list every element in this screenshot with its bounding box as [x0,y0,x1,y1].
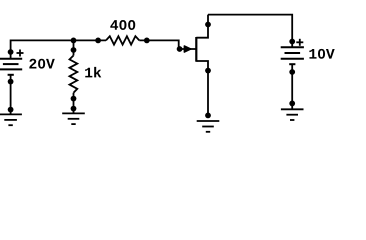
transistor Q1 source lead [196,61,208,116]
battery V1 bottom terminal dot [8,79,14,85]
ground below resistor R1 [62,112,85,114]
resistor R2 right terminal dot [144,38,150,44]
ground below battery V2 [281,108,304,110]
battery V2 plus sign [296,41,303,43]
transistor Q1 drain dot [205,22,211,28]
resistor R1 value label 1k [85,67,101,78]
transistor Q1 drain lead [196,15,208,38]
battery V1 top terminal dot [8,49,14,55]
wire node A to resistor R2 left terminal [74,39,107,41]
wire resistor R2 to transistor Q1 gate [139,40,195,49]
wire node A to resistor R1 [73,40,75,55]
wire top-left corner from battery V1 to node A [11,40,74,52]
node S junction dot at Q1 ground [205,113,211,119]
ground junction dot below V2 [289,101,295,107]
resistor R1 top terminal dot [71,47,77,53]
resistor R2 value label 400 [110,20,135,30]
wire battery V2 top stub [291,42,293,48]
battery V2 value label 10V [309,49,334,59]
battery V2 top terminal dot [289,39,295,45]
transistor Q1 gate terminal dot [177,46,183,52]
transistor Q1 channel bar [195,37,197,62]
battery V2 10V plates [281,46,304,48]
ground below battery V1 [0,113,22,115]
battery V1 plus sign [17,52,24,54]
wire battery V2 bottom stub [291,64,293,72]
transistor Q1 gate arrow [184,46,191,52]
wire battery V1 bottom stub [10,75,12,82]
wire battery V2 to ground [291,72,293,109]
resistor R1 bottom terminal dot [71,96,77,102]
wire battery V1 to ground [10,82,12,115]
battery V1 value label 20V [29,59,54,69]
node A junction dot [71,38,77,44]
resistor R2 left terminal dot [95,38,101,44]
resistor R1 1k zigzag [70,56,78,93]
ground junction dot below V1 [8,107,14,113]
battery V1 20V plates [0,58,22,60]
battery V2 bottom terminal dot [289,69,295,75]
ground below Q1 source [197,120,220,122]
transistor Q1 source dot [205,68,211,74]
ground junction dot below R1 [71,106,77,112]
wire battery V1 top stub [10,52,12,59]
resistor R2 400 zigzag [106,36,139,44]
wire resistor R1 to ground [73,93,75,114]
wire top from Q1 drain to battery V2 [208,15,292,42]
